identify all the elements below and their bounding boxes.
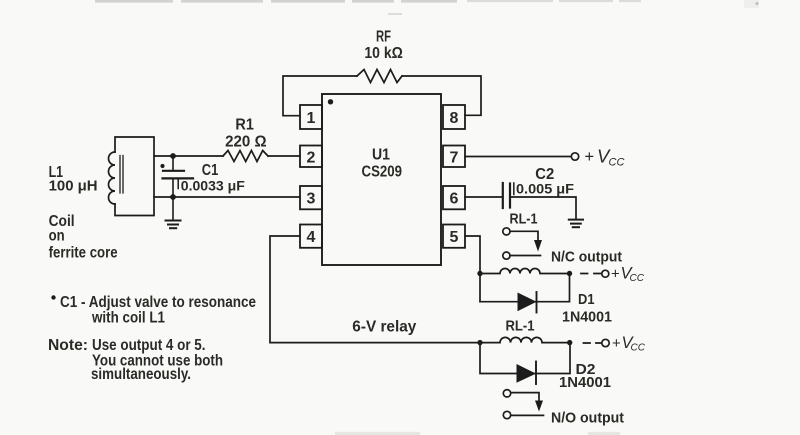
- node junction dot relay1 right: [567, 271, 572, 276]
- pin 6: [443, 186, 465, 209]
- wire R1 to pin2: [268, 155, 300, 157]
- svg-text:100 μH: 100 μH: [49, 178, 98, 195]
- wire coil to R1: [154, 155, 223, 157]
- pin 2: [300, 146, 322, 168]
- svg-text:1N4001: 1N4001: [562, 309, 612, 326]
- diode D2 loop wires: [480, 343, 570, 374]
- wire contact top: [510, 231, 538, 240]
- relay contact N/O bottom circle: [503, 411, 510, 418]
- wire top loop left: [283, 76, 357, 116]
- svg-text:R1: R1: [235, 117, 254, 134]
- wire C2 to ground: [510, 197, 576, 219]
- label +Vcc (relay1): [611, 265, 645, 285]
- svg-text:ferrite core: ferrite core: [49, 245, 118, 262]
- svg-text:Note:: Note:: [48, 337, 88, 354]
- pin 7: [443, 146, 465, 168]
- top-right smudge: [744, 0, 759, 8]
- svg-text:+: +: [612, 335, 621, 352]
- label +Vcc (relay2): [612, 334, 646, 354]
- capacitor C2: [503, 183, 514, 208]
- ferrite core bars: [120, 156, 123, 194]
- svg-text:D1: D1: [578, 291, 595, 308]
- svg-text:on: on: [49, 228, 65, 245]
- inductor L1 loop: [115, 137, 154, 216]
- svg-text:5: 5: [450, 229, 459, 246]
- dashed link to Vcc (relay2): [584, 342, 602, 344]
- wire N/O contact top: [511, 393, 539, 401]
- relay contact N/O top circle: [503, 390, 510, 397]
- svg-text:Use output 4 or 5.: Use output 4 or 5.: [92, 337, 206, 354]
- cropped title remnant dashes at top: [95, 0, 641, 15]
- wire contact bottom: [510, 255, 540, 257]
- wire pin4 down and across: [270, 236, 480, 343]
- svg-text:C1: C1: [202, 162, 219, 179]
- svg-text:RL-1: RL-1: [506, 318, 535, 335]
- terminal circle Vcc: [571, 153, 578, 160]
- svg-text:0.0033 μF: 0.0033 μF: [181, 178, 245, 194]
- relay coil RL-1 (lower): [480, 337, 570, 342]
- pin 4: [300, 225, 322, 248]
- svg-text:U1: U1: [372, 147, 390, 164]
- svg-text:N/C output: N/C output: [551, 249, 622, 266]
- node junction dot C1 top: [170, 153, 176, 159]
- ground below C1: [166, 197, 181, 228]
- svg-text:CC: CC: [631, 343, 646, 354]
- wire pin5 down: [465, 236, 480, 302]
- svg-text:1N4001: 1N4001: [559, 374, 611, 391]
- relay coil RL-1 (upper): [480, 269, 570, 274]
- svg-text:6: 6: [450, 191, 459, 208]
- node junction dot relay2 left: [477, 340, 482, 345]
- pin 1: [300, 105, 322, 129]
- note bullet: [51, 295, 55, 299]
- wire pin7 to Vcc terminal: [465, 156, 571, 158]
- IC orientation dot: [328, 99, 333, 104]
- pin 3: [300, 186, 322, 209]
- relay contact N/C top circle: [503, 228, 510, 235]
- op-amp U1 body: [322, 94, 441, 265]
- svg-text:3: 3: [307, 191, 316, 208]
- svg-text:1: 1: [307, 110, 316, 127]
- terminal circle Vcc relay1: [602, 270, 609, 277]
- svg-text:7: 7: [450, 150, 459, 167]
- node junction dot C1 bottom: [170, 194, 176, 200]
- relay contact N/C bottom circle: [503, 252, 510, 259]
- wire pin6 to C2: [465, 196, 502, 198]
- capacitor C1: [163, 156, 194, 197]
- svg-text:6-V relay: 6-V relay: [352, 319, 416, 336]
- svg-text:10 kΩ: 10 kΩ: [364, 45, 403, 62]
- node junction dot relay1 left: [477, 271, 482, 276]
- svg-text:CC: CC: [609, 157, 625, 169]
- svg-text:CC: CC: [630, 273, 645, 284]
- resistor R1: [223, 151, 268, 162]
- contact arrow: [534, 240, 542, 252]
- svg-text:RL-1: RL-1: [510, 210, 538, 227]
- svg-text:with coil L1: with coil L1: [91, 309, 165, 326]
- asterisk mark for C1: [160, 164, 164, 168]
- pin 5: [443, 225, 465, 248]
- resistor RF: [357, 70, 402, 83]
- svg-text:4: 4: [307, 229, 316, 246]
- svg-text:CS209: CS209: [362, 164, 403, 181]
- svg-text:220 Ω: 220 Ω: [225, 134, 267, 151]
- svg-text:N/O output: N/O output: [551, 410, 624, 427]
- terminal circle Vcc relay2: [602, 339, 609, 346]
- bottom edge remnants: [335, 432, 620, 435]
- node junction dot relay2 right: [567, 340, 572, 345]
- diode D1: [518, 293, 537, 312]
- wire top loop right: [402, 76, 481, 115]
- label +Vcc (pin7): [585, 146, 625, 169]
- contact arrow N/O: [535, 401, 543, 412]
- svg-text:RF: RF: [376, 29, 391, 46]
- wire coil to pin3: [154, 196, 300, 198]
- diode D2: [517, 364, 537, 383]
- svg-text:+: +: [611, 266, 620, 283]
- pin 8: [443, 105, 465, 129]
- inductor L1 windings: [109, 152, 115, 204]
- svg-text:2: 2: [307, 150, 316, 167]
- diode D1 loop wires: [480, 274, 570, 302]
- wire N/O contact bottom: [511, 414, 544, 416]
- dashed link to Vcc (relay1): [581, 273, 601, 275]
- svg-text:8: 8: [450, 110, 459, 127]
- svg-text:simultaneously.: simultaneously.: [91, 366, 191, 383]
- svg-text:0.005 μF: 0.005 μF: [516, 181, 574, 197]
- svg-text:+: +: [585, 148, 595, 166]
- ground below C2: [569, 220, 583, 228]
